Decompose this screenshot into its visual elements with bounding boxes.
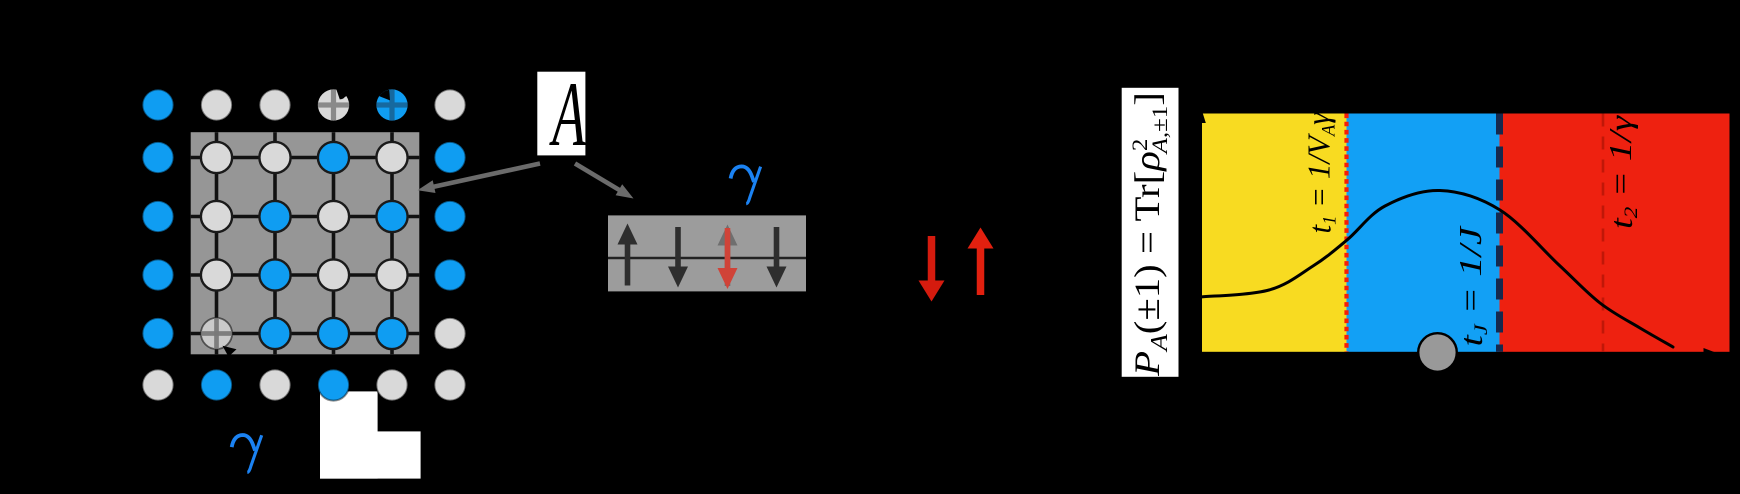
chain divider line	[608, 257, 806, 260]
node r5c1 blue site	[142, 318, 173, 349]
node r4c2 gray site	[201, 259, 232, 290]
node r1c4 measured gray site (crosshair with notch)	[318, 88, 349, 120]
node r6c4 blue site	[318, 369, 349, 400]
svg-text:A: A	[549, 65, 587, 166]
tJ navy dashed line	[1496, 114, 1503, 352]
node r6c3 gray site	[259, 369, 290, 400]
node r3c3 blue site	[259, 201, 290, 232]
node r2c1 blue site	[142, 142, 173, 173]
node r2c4 blue site	[318, 142, 349, 173]
spin chain rect	[608, 215, 806, 291]
red region	[1500, 114, 1730, 352]
node r5c4 blue site	[318, 318, 349, 349]
t2 dark red dashed line	[1602, 114, 1605, 352]
node r3c1 blue site	[142, 201, 173, 232]
ylabel white box	[1122, 88, 1179, 377]
node r1c3 gray site	[259, 89, 290, 120]
blue region	[1347, 114, 1500, 352]
node r4c5 gray site	[376, 259, 407, 290]
node r3c2 gray site	[201, 201, 232, 232]
region A gray square	[191, 132, 420, 354]
x axis arrowhead	[1704, 348, 1722, 361]
node r2c5 gray site	[376, 142, 407, 173]
chain gray up (flipping) 3	[725, 245, 731, 287]
arrow A to chain	[575, 164, 620, 191]
lattice grid lines	[191, 132, 420, 354]
label A text	[549, 65, 587, 166]
node r6c6 gray site	[434, 369, 465, 400]
label A white box	[537, 72, 585, 156]
arrow A to lattice	[433, 164, 540, 187]
t1 red dotted line	[1344, 114, 1348, 352]
node r1c1 blue site	[142, 89, 173, 120]
gray marker circle on axis	[1418, 333, 1457, 372]
node r5c3 blue site	[259, 318, 290, 349]
red up arrow	[977, 248, 985, 296]
red down arrow	[928, 236, 936, 282]
node r4c6 blue site	[434, 259, 465, 290]
node r5c2 translucent crosshair site	[201, 318, 232, 349]
chain red spin down 3	[725, 228, 731, 269]
node r2c2 gray site	[201, 142, 232, 173]
node r5c5 blue site	[376, 318, 407, 349]
purity curve	[1201, 190, 1673, 347]
gamma label (chain)	[731, 166, 761, 203]
node r5c6 gray site	[434, 318, 465, 349]
node r3c5 blue site	[376, 201, 407, 232]
node r4c4 gray site	[318, 259, 349, 290]
node r3c6 blue site	[434, 201, 465, 232]
node r6c1 gray site	[142, 369, 173, 400]
node r4c1 blue site	[142, 259, 173, 290]
node r1c6 gray site	[434, 89, 465, 120]
y axis arrowhead	[1195, 106, 1206, 123]
node r1c5 measured blue site (crosshair with notch)	[376, 89, 407, 120]
node r6c5 gray site	[376, 369, 407, 400]
node r2c3 gray site	[259, 142, 290, 173]
chain spin down 4	[774, 227, 780, 268]
black pointer arrowhead to crosshair site	[223, 346, 237, 357]
node r2c6 blue site	[434, 142, 465, 173]
chain spin down 2	[675, 227, 681, 268]
gamma label (lattice)	[232, 435, 262, 472]
node r4c3 blue site	[259, 259, 290, 290]
node r6c2 blue site	[201, 369, 232, 400]
chain spin up 1	[625, 244, 631, 286]
yellow region	[1202, 114, 1347, 352]
node r1c2 gray site	[201, 89, 232, 120]
white label box 1	[320, 391, 378, 478]
white label box 2	[320, 431, 421, 478]
node r3c4 gray site	[318, 201, 349, 232]
